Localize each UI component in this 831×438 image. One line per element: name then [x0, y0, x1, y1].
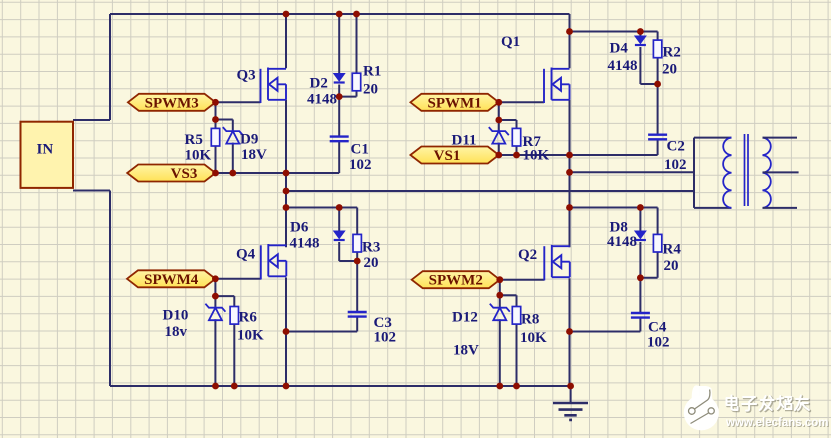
svg-text:www.elecfans.com: www.elecfans.com [725, 417, 828, 429]
svg-text:20: 20 [363, 82, 378, 98]
svg-text:10K: 10K [185, 148, 212, 164]
svg-text:18V: 18V [453, 343, 479, 359]
svg-text:R4: R4 [663, 242, 682, 258]
svg-text:Q1: Q1 [501, 34, 520, 50]
svg-text:D4: D4 [610, 41, 629, 57]
svg-text:10K: 10K [523, 148, 550, 164]
svg-text:4148: 4148 [608, 58, 638, 74]
svg-text:VS3: VS3 [171, 166, 198, 182]
svg-text:Q3: Q3 [237, 68, 256, 84]
svg-text:102: 102 [349, 157, 372, 173]
svg-text:D9: D9 [240, 132, 258, 148]
svg-text:C2: C2 [667, 139, 685, 155]
svg-text:IN: IN [37, 142, 54, 158]
svg-text:20: 20 [662, 62, 677, 78]
svg-text:102: 102 [647, 335, 670, 351]
svg-text:D2: D2 [310, 76, 328, 92]
svg-text:10K: 10K [520, 330, 547, 346]
svg-text:SPWM2: SPWM2 [429, 273, 483, 289]
svg-text:10K: 10K [237, 328, 264, 344]
svg-text:20: 20 [664, 258, 679, 274]
svg-text:VS1: VS1 [434, 148, 461, 164]
svg-text:R6: R6 [239, 310, 258, 326]
svg-text:4148: 4148 [607, 234, 637, 250]
svg-text:D11: D11 [452, 133, 477, 149]
svg-text:SPWM4: SPWM4 [144, 272, 199, 288]
svg-text:20: 20 [364, 255, 379, 271]
svg-text:102: 102 [374, 330, 397, 346]
svg-text:18V: 18V [241, 147, 267, 163]
svg-text:SPWM3: SPWM3 [145, 95, 199, 111]
svg-text:SPWM1: SPWM1 [428, 95, 482, 111]
svg-text:R1: R1 [363, 64, 381, 80]
svg-text:C1: C1 [351, 142, 369, 158]
svg-text:Q2: Q2 [518, 247, 537, 263]
svg-text:Q4: Q4 [236, 247, 256, 263]
svg-text:18v: 18v [165, 324, 188, 340]
svg-text:R2: R2 [663, 45, 681, 61]
svg-text:R8: R8 [521, 312, 539, 328]
svg-text:C4: C4 [648, 320, 667, 336]
svg-text:D6: D6 [290, 220, 309, 236]
svg-text:R5: R5 [185, 132, 203, 148]
svg-text:102: 102 [664, 157, 687, 173]
svg-text:R3: R3 [362, 240, 380, 256]
svg-text:D12: D12 [452, 310, 478, 326]
svg-text:4148: 4148 [307, 92, 337, 108]
svg-text:4148: 4148 [290, 236, 320, 252]
svg-text:D10: D10 [163, 308, 189, 324]
